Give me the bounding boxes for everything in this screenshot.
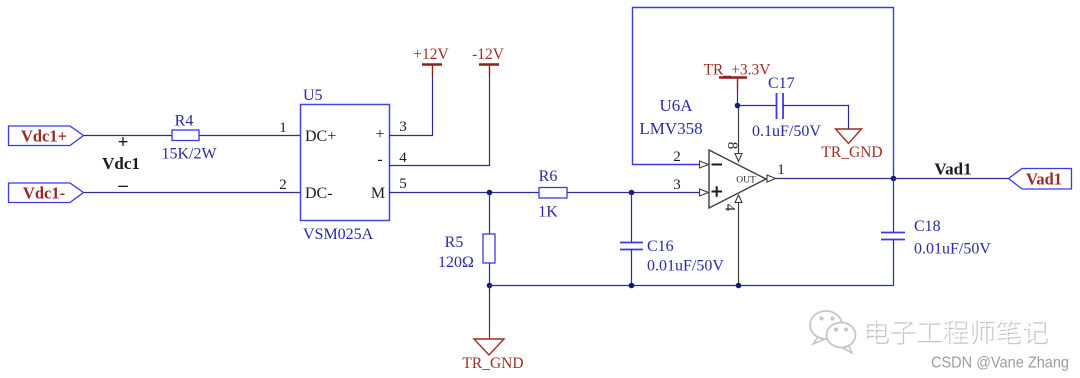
wire C18 top <box>893 179 895 233</box>
svg-text:1: 1 <box>279 120 287 136</box>
power symbol TR_+3.3V <box>704 62 772 91</box>
watermark title text <box>866 318 1048 344</box>
svg-text:TR_GND: TR_GND <box>462 355 523 372</box>
svg-text:TR_+3.3V: TR_+3.3V <box>704 62 772 79</box>
resistor R5 body <box>483 234 495 263</box>
wire node to R5 <box>489 193 491 235</box>
svg-text:R6: R6 <box>539 168 558 185</box>
net label Vdc1+ <box>9 126 84 146</box>
isolation amplifier U5 body <box>301 105 390 221</box>
wire U5 pin 4 to -12V <box>389 76 490 166</box>
op-amp pin 4 arrowhead <box>735 195 742 203</box>
wire TR_+3.3V to node <box>737 90 739 106</box>
svg-text:2: 2 <box>279 177 287 193</box>
svg-text:+12V: +12V <box>413 46 449 63</box>
op-amp pin 4 wire <box>738 203 740 286</box>
svg-text:3: 3 <box>673 177 681 193</box>
junction node output <box>891 176 897 182</box>
junction node 3.3V/pin8/C17 <box>735 103 741 109</box>
svg-text:C17: C17 <box>768 75 795 92</box>
svg-text:DC-: DC- <box>305 185 333 202</box>
svg-text:120Ω: 120Ω <box>438 254 474 271</box>
op-amp plus input mark <box>712 186 723 197</box>
svg-text:C18: C18 <box>914 218 941 235</box>
net label Vad1 <box>1009 169 1072 190</box>
junction node rail/pin4 <box>736 283 742 289</box>
svg-text:M: M <box>371 185 385 202</box>
resistor R4 body <box>172 130 199 141</box>
svg-text:-: - <box>377 151 382 168</box>
op-amp output arrowhead pin 1 <box>767 175 776 182</box>
svg-text:U5: U5 <box>303 87 323 104</box>
wire C18 bottom to rail <box>893 240 895 286</box>
op-amp pin 3 arrowhead <box>700 189 709 196</box>
svg-text:0.01uF/50V: 0.01uF/50V <box>914 241 991 258</box>
svg-text:0.1uF/50V: 0.1uF/50V <box>752 123 821 140</box>
svg-text:CSDN @Vane Zhang: CSDN @Vane Zhang <box>931 355 1069 372</box>
svg-text:3: 3 <box>399 119 407 135</box>
op-amp pin 2 arrowhead <box>700 161 709 168</box>
svg-text:+: + <box>375 126 384 143</box>
wire U5 pin 5 (M) to R6 <box>389 192 539 194</box>
svg-text:4: 4 <box>399 150 407 166</box>
wire op-amp output <box>776 178 894 180</box>
junction node rail/R5 <box>487 283 493 289</box>
watermark logo wechat bubbles <box>810 311 856 353</box>
svg-text:2: 2 <box>673 149 681 165</box>
svg-text:Vdc1-: Vdc1- <box>23 184 65 203</box>
power symbol -12V <box>472 46 505 76</box>
capacitor C18 body <box>881 233 905 240</box>
wire node to C17 <box>738 105 777 107</box>
op-amp U6A triangle <box>709 150 766 208</box>
net label Vdc1- <box>9 183 84 203</box>
svg-text:15K/2W: 15K/2W <box>161 146 217 163</box>
power symbol +12V <box>413 46 449 76</box>
junction node rail/C16 <box>629 283 635 289</box>
svg-text:LMV358: LMV358 <box>639 119 702 138</box>
svg-text:Vad1: Vad1 <box>934 160 971 179</box>
ground symbol TR_GND (bottom) <box>462 339 523 372</box>
svg-text:OUT: OUT <box>736 176 756 186</box>
svg-text:Vdc1: Vdc1 <box>102 154 140 173</box>
wire Vdc1- to U5 pin 2 <box>84 192 300 194</box>
svg-text:8: 8 <box>724 142 740 150</box>
junction node M/R5 <box>487 190 493 196</box>
wire C17 to TR_GND <box>783 106 849 130</box>
ground symbol TR_GND (C17) <box>821 129 882 161</box>
wire C16 bottom to rail <box>631 250 633 286</box>
svg-text:0.01uF/50V: 0.01uF/50V <box>647 258 724 275</box>
resistor R6 body <box>539 188 567 199</box>
svg-text:4: 4 <box>722 204 738 212</box>
wire R6 to op-amp pin 3 <box>567 192 700 194</box>
svg-text:R5: R5 <box>445 234 464 251</box>
capacitor C17 body <box>777 93 784 119</box>
wire Vdc1+ to R4 <box>84 135 172 137</box>
svg-text:1K: 1K <box>538 204 558 221</box>
wire R5 to ground rail <box>489 263 491 286</box>
wire R4 to U5 pin 1 <box>199 135 300 137</box>
svg-text:5: 5 <box>399 176 407 192</box>
svg-text:U6A: U6A <box>659 96 693 115</box>
svg-text:+: + <box>118 132 129 153</box>
svg-text:C16: C16 <box>647 238 674 255</box>
capacitor C16 body <box>620 243 643 250</box>
svg-text:R4: R4 <box>175 113 194 130</box>
svg-text:Vdc1+: Vdc1+ <box>21 127 67 146</box>
svg-text:-12V: -12V <box>472 46 505 63</box>
svg-text:DC+: DC+ <box>305 128 336 145</box>
op-amp pin 8 wire <box>738 106 740 154</box>
feedback wire loop <box>633 8 894 179</box>
svg-text:VSM025A: VSM025A <box>303 226 374 243</box>
wire U5 pin 3 to +12V <box>389 76 433 136</box>
svg-text:TR_GND: TR_GND <box>821 144 882 161</box>
svg-text:1: 1 <box>777 162 785 178</box>
wire output to Vad1 label <box>894 178 1010 180</box>
wire rail to TR_GND <box>489 286 491 340</box>
op-amp pin 8 arrowhead <box>735 154 742 162</box>
svg-text:Vad1: Vad1 <box>1026 170 1062 189</box>
op-amp minus input mark <box>712 164 723 166</box>
wire C16 top <box>631 193 633 243</box>
junction node R6/C16 <box>629 190 635 196</box>
ground rail wire <box>490 285 894 287</box>
